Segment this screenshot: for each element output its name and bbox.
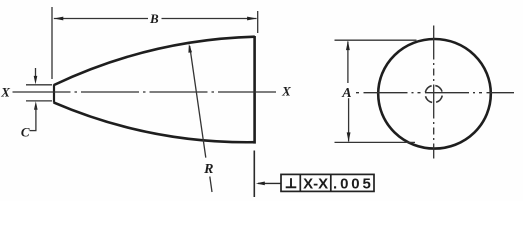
arrowhead feature control frame leader: [256, 182, 265, 186]
wire: dimension B right extension line: [257, 11, 259, 33]
arrowhead B right: [247, 17, 257, 21]
wire: dimension A top extension line: [335, 39, 417, 41]
ogive tip flat face: [53, 84, 55, 102]
wire: dimension C top extension line: [26, 84, 52, 86]
wire: feature control frame leader shaft: [258, 182, 281, 184]
svg-text:R: R: [203, 162, 213, 177]
arrowhead C bottom: [34, 101, 38, 110]
vertical centerline of circle: [433, 26, 435, 159]
wire: dimension B left extension line: [51, 7, 53, 79]
wire: datum X-X extension line below base: [253, 151, 255, 198]
arrowhead B left: [54, 17, 64, 21]
wire: dimension C upper arrow shaft: [35, 68, 37, 78]
wire: dimension A line upper segment: [347, 42, 349, 84]
horizontal centerline of circle: [356, 92, 514, 94]
arrowhead A top: [346, 41, 350, 51]
wire: dimension A bottom extension line: [335, 141, 416, 143]
svg-text:.005: .005: [333, 175, 374, 192]
arrowhead R leader: [188, 44, 192, 53]
wire: radius R leader lower segment: [210, 177, 212, 193]
wire: radius R leader upper segment: [190, 46, 206, 158]
svg-text:C: C: [21, 124, 30, 139]
svg-text:A: A: [341, 86, 351, 101]
ogive base line: [253, 36, 256, 144]
wire: dimension C bottom extension line: [26, 100, 52, 102]
wire: dimension B line left segment: [54, 18, 148, 20]
feature control frame box: [281, 174, 374, 191]
ogive body top curve: [54, 37, 255, 85]
svg-text:X: X: [0, 84, 10, 99]
feature control frame divider 2: [330, 174, 332, 191]
wire: dimension A line lower segment: [348, 98, 350, 141]
wire: dimension B line right segment: [162, 18, 257, 20]
svg-text:X-X: X-X: [303, 175, 328, 192]
svg-text:B: B: [149, 11, 159, 26]
feature control frame divider 1: [299, 174, 301, 191]
wire: dimension C lower arrow shaft: [35, 107, 37, 131]
small center circle: [424, 84, 444, 104]
perpendicularity symbol: [286, 186, 297, 188]
svg-text:X: X: [281, 84, 291, 99]
wire: C label connector: [30, 130, 37, 132]
arrowhead A bottom: [347, 132, 351, 142]
circle view outline: [378, 39, 491, 149]
arrowhead C top: [34, 76, 38, 85]
centerline X-X: [13, 91, 279, 93]
ogive body bottom curve: [54, 102, 255, 142]
